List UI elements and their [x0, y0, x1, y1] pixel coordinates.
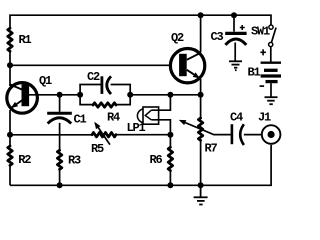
wire: C2 branch left riser — [80, 85, 101, 95]
wire: R7 top lead — [200, 95, 202, 118]
capacitor C2 — [102, 76, 111, 94]
svg-text:R4: R4 — [107, 111, 120, 125]
lamp LP1 — [137, 107, 158, 124]
capacitor C1 — [47, 113, 72, 123]
wire: R6 bottom lead — [169, 171, 171, 186]
wire: R5 feed wire from Q1 emitter node (crosses C1-R3 column) — [10, 134, 92, 136]
wire: R4 branch right drop — [116, 95, 130, 105]
minus sign B1 — [260, 85, 265, 87]
wire: lamp bottom lead down to R6 node — [151, 120, 170, 135]
svg-text:Q1: Q1 — [39, 74, 52, 88]
resistor R4 — [93, 103, 116, 107]
svg-text:C3: C3 — [211, 30, 224, 44]
wire: Q1 base to C2/R4 network left node — [29, 94, 80, 96]
node: junction Q2 emitter / R7 top — [198, 92, 204, 98]
transistor Q2 — [170, 48, 204, 82]
resistor R6 — [168, 147, 172, 170]
node: junction lamp top on emitter net — [167, 92, 173, 98]
wire: node to Q2 emitter column — [130, 94, 200, 96]
capacitor C3 — [225, 15, 246, 61]
wire: base line from node to Q2 base — [10, 64, 179, 66]
resistor R7 (potentiometer) — [198, 118, 202, 140]
resistor R3 — [57, 150, 61, 169]
wiper arrow of R5 — [95, 123, 110, 144]
wire: R5 to lamp/R6 node — [116, 134, 170, 136]
ground symbol below C3 — [229, 61, 242, 70]
node: junction Q2 collector on top rail — [198, 12, 204, 18]
node: junction R7 / ground symbol on rail — [198, 182, 204, 188]
wire: C4 to J1 — [244, 134, 261, 136]
ground symbol at bottom rail — [194, 185, 208, 204]
svg-text:SW1: SW1 — [251, 25, 270, 39]
wire: battery minus to ground — [270, 83, 272, 97]
resistor R5 (trimmer) — [92, 133, 116, 137]
plus sign C3 — [240, 25, 245, 30]
node: junction R1 / Q1 collector / Q2 base wire — [7, 62, 13, 68]
wire: R1 bottom lead to node — [9, 51, 11, 65]
node: junction Q1 emitter / R2 / R5 wire — [7, 132, 13, 138]
node: junction C1 top — [57, 92, 63, 98]
svg-text:B1: B1 — [248, 66, 261, 80]
resistor R2 — [8, 146, 12, 165]
node: junction R3 on ground rail — [57, 182, 63, 188]
wire: R7 bottom lead — [200, 140, 202, 185]
svg-text:R7: R7 — [205, 142, 218, 156]
node: junction C2/R4 right — [127, 92, 133, 98]
wire: C1 top lead — [59, 95, 61, 112]
ground symbol below B1 — [265, 97, 278, 104]
wire: Q2 emitter down to net — [200, 79, 202, 95]
wire: bottom ground rail to J1 — [10, 145, 271, 185]
wire: Q1 emitter down left rail — [9, 110, 11, 135]
wire: R2 leads — [9, 135, 11, 186]
wiper arrow of R7 to C4 — [181, 121, 231, 135]
svg-text:C4: C4 — [230, 111, 243, 125]
wire: lamp top lead up to emitter net — [151, 95, 170, 110]
svg-text:C2: C2 — [87, 70, 100, 84]
wire: C2 branch right riser — [111, 85, 131, 95]
wire: Q2 collector to top rail — [200, 15, 202, 52]
wire: SW1 to battery — [270, 47, 272, 62]
svg-text:C1: C1 — [74, 113, 87, 127]
node: junction C2/R4 left — [77, 92, 83, 98]
capacitor C4 — [232, 124, 244, 145]
svg-text:R5: R5 — [91, 142, 104, 156]
wire: R6 top lead — [169, 135, 171, 147]
plus sign B1 — [260, 49, 266, 55]
wire: R4 branch left drop — [80, 95, 93, 105]
battery B1 — [261, 63, 281, 82]
svg-text:R6: R6 — [150, 153, 163, 167]
svg-text:J1: J1 — [258, 111, 271, 125]
wire: left rail into Q1 collector — [9, 65, 11, 86]
resistor R1 — [8, 28, 12, 51]
svg-text:R1: R1 — [19, 33, 32, 47]
transistor Q1 — [7, 83, 38, 114]
node: junction R6 on ground rail — [167, 182, 173, 188]
svg-text:R2: R2 — [18, 153, 31, 167]
jack J1 — [262, 125, 281, 144]
svg-text:LP1: LP1 — [127, 121, 146, 135]
node: junction lamp bottom / R5 / R6 — [167, 132, 173, 138]
wire: C1 bottom to R3 (crosses R5 wire, no joint) — [59, 123, 61, 150]
node: junction C3 on top rail — [231, 12, 237, 18]
switch SW1 — [269, 25, 276, 47]
svg-text:R3: R3 — [68, 154, 81, 168]
wire: top supply rail from R1 top to SW1 — [10, 15, 271, 28]
svg-text:Q2: Q2 — [171, 31, 184, 45]
wire: R3 bottom lead — [59, 169, 61, 185]
